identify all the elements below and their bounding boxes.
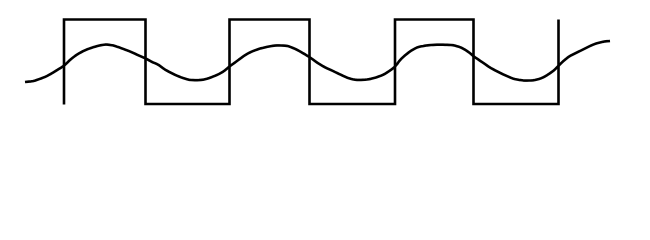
square wave <box>64 20 559 105</box>
sine wave <box>25 41 610 82</box>
waveform figure: square wave with fundamental sine overlay <box>0 0 650 133</box>
